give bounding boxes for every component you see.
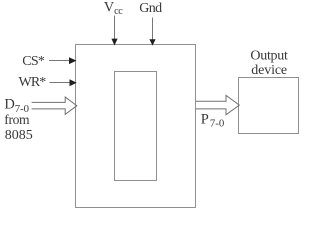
svg-text:Output: Output xyxy=(250,48,288,63)
svg-text:P7-0: P7-0 xyxy=(201,111,225,129)
svg-text:WR*: WR* xyxy=(19,75,47,90)
svg-text:from: from xyxy=(4,112,30,127)
svg-text:Gnd: Gnd xyxy=(139,1,162,16)
svg-text:CS*: CS* xyxy=(22,54,45,69)
svg-text:8085: 8085 xyxy=(5,128,33,143)
svg-text:device: device xyxy=(251,63,287,78)
svg-text:Vcc: Vcc xyxy=(104,0,123,17)
